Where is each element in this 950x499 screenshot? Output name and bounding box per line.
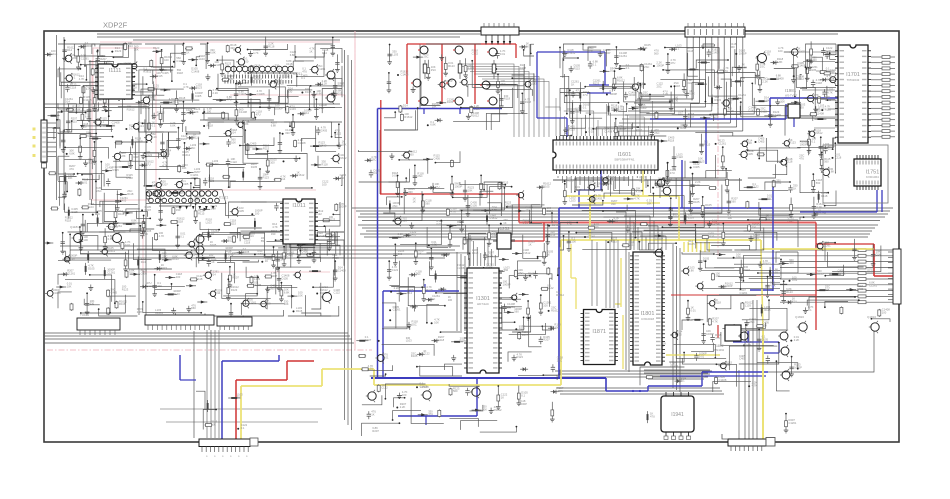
red net small bottom-right stub xyxy=(717,325,719,338)
svg-text:C1408: C1408 xyxy=(401,72,409,76)
svg-text:330: 330 xyxy=(285,131,290,135)
svg-text:R118: R118 xyxy=(127,176,134,180)
wire center vertical bundle x345-352 xyxy=(344,50,346,420)
center C2 component cluster xyxy=(198,199,346,268)
right L component cluster xyxy=(803,239,890,322)
svg-text:C1408: C1408 xyxy=(827,77,835,81)
svg-text:10K: 10K xyxy=(298,294,303,298)
blue net video horizontal xyxy=(378,108,503,110)
svg-text:47U: 47U xyxy=(583,93,588,97)
left of I1941 component cluster xyxy=(647,411,655,423)
svg-text:D105: D105 xyxy=(688,242,695,246)
svg-text:10K: 10K xyxy=(284,302,289,306)
top-left A1 component cluster xyxy=(58,40,205,133)
svg-text:D14: D14 xyxy=(374,171,379,175)
svg-text:C405: C405 xyxy=(141,272,148,276)
svg-text:1K: 1K xyxy=(112,123,115,127)
blue net top-center loop xyxy=(537,51,605,53)
svg-text:R118: R118 xyxy=(821,194,828,198)
svg-text:47U: 47U xyxy=(428,412,433,416)
svg-text:C1408: C1408 xyxy=(257,92,265,96)
svg-text:C122: C122 xyxy=(381,386,388,390)
connector bottom right xyxy=(728,439,766,446)
svg-text:I1871: I1871 xyxy=(592,329,606,335)
I1301 right component cluster xyxy=(502,268,565,380)
svg-text:0.01: 0.01 xyxy=(368,367,374,371)
svg-text:10K: 10K xyxy=(825,288,830,292)
svg-text:0.01: 0.01 xyxy=(125,243,131,247)
svg-text:D105: D105 xyxy=(251,165,258,169)
pink block outline left xyxy=(92,60,148,200)
transistor Q1202 xyxy=(321,291,332,304)
svg-text:10K: 10K xyxy=(647,202,652,206)
svg-text:0.1: 0.1 xyxy=(593,62,597,66)
svg-text:L103: L103 xyxy=(406,339,412,343)
svg-text:C1261: C1261 xyxy=(67,272,75,276)
svg-text:C122: C122 xyxy=(334,291,341,295)
module box around I1751 xyxy=(823,145,888,203)
svg-text:1K: 1K xyxy=(501,395,504,399)
svg-text:C118: C118 xyxy=(438,338,445,342)
blue net top-right xyxy=(650,118,786,120)
svg-text:I1252: I1252 xyxy=(498,226,510,231)
svg-text:330: 330 xyxy=(271,232,276,236)
red net bottom to connector xyxy=(235,380,237,439)
wire right area fan to connector xyxy=(780,249,858,251)
svg-text:L103: L103 xyxy=(643,93,649,97)
section divider horizontal dash-dot line xyxy=(47,349,372,351)
svg-text:330: 330 xyxy=(230,46,235,50)
svg-text:100: 100 xyxy=(571,239,576,243)
svg-text:C1261: C1261 xyxy=(869,283,877,287)
svg-text:D105: D105 xyxy=(282,277,289,281)
svg-text:C118: C118 xyxy=(786,160,793,164)
svg-text:I1941: I1941 xyxy=(671,412,684,418)
bottom H component cluster xyxy=(640,323,802,392)
connector top center xyxy=(481,27,519,35)
svg-text:R1612: R1612 xyxy=(182,153,190,157)
svg-text:D105: D105 xyxy=(693,200,700,204)
svg-text:0.01: 0.01 xyxy=(523,221,529,225)
svg-text:1K: 1K xyxy=(211,232,214,236)
pink block outline around I1111 xyxy=(93,48,156,104)
svg-text:2SC: 2SC xyxy=(654,131,659,135)
svg-text:R118: R118 xyxy=(177,71,184,75)
svg-text:2SC: 2SC xyxy=(749,320,754,324)
svg-text:2SC: 2SC xyxy=(417,174,422,178)
svg-text:330: 330 xyxy=(611,202,616,206)
svg-text:R123: R123 xyxy=(708,234,715,238)
svg-text:4.7K: 4.7K xyxy=(253,51,259,55)
svg-text:10K: 10K xyxy=(468,188,473,192)
svg-text:R123: R123 xyxy=(231,288,238,292)
svg-text:4.7K: 4.7K xyxy=(159,234,165,238)
svg-text:6.8K: 6.8K xyxy=(430,123,436,127)
svg-text:0.1: 0.1 xyxy=(101,120,105,124)
svg-text:6.8K: 6.8K xyxy=(210,51,216,55)
svg-text:100: 100 xyxy=(613,219,618,223)
left edge strip component cluster xyxy=(43,110,61,298)
svg-text:C1408: C1408 xyxy=(712,221,720,225)
svg-text:100: 100 xyxy=(207,109,212,113)
svg-text:0.01: 0.01 xyxy=(500,52,506,56)
svg-text:R207: R207 xyxy=(365,338,372,342)
top-mid strip component cluster xyxy=(358,150,460,186)
svg-text:R115: R115 xyxy=(161,266,168,270)
svg-text:2SC: 2SC xyxy=(371,158,376,162)
I1601 under component cluster xyxy=(563,175,665,205)
svg-text:R123: R123 xyxy=(173,292,180,296)
transistor array K1221 two rows xyxy=(146,190,228,210)
svg-text:C405: C405 xyxy=(287,253,294,257)
svg-text:0.1: 0.1 xyxy=(180,234,184,238)
svg-text:100: 100 xyxy=(554,326,559,330)
IC I1871 xyxy=(581,310,619,365)
svg-text:C118: C118 xyxy=(816,81,823,85)
svg-text:6.8K: 6.8K xyxy=(764,99,770,103)
transistor Q1669 xyxy=(653,247,663,259)
IC I1601 xyxy=(553,136,658,174)
svg-text:D105: D105 xyxy=(411,354,418,358)
svg-text:100: 100 xyxy=(715,274,720,278)
svg-text:R123: R123 xyxy=(448,64,455,68)
svg-text:D14: D14 xyxy=(550,233,555,237)
svg-text:560: 560 xyxy=(409,153,414,157)
svg-text:I1011: I1011 xyxy=(292,203,305,209)
svg-text:C405: C405 xyxy=(195,94,202,98)
svg-text:XDP2F: XDP2F xyxy=(103,21,128,30)
svg-text:R123: R123 xyxy=(122,288,129,292)
svg-text:L103: L103 xyxy=(570,198,576,202)
wire verticals from top connector 2 xyxy=(686,37,688,95)
svg-text:1K: 1K xyxy=(503,221,506,225)
svg-text:R207: R207 xyxy=(522,333,529,337)
svg-text:C1408: C1408 xyxy=(818,211,826,215)
svg-text:D14: D14 xyxy=(687,81,692,85)
svg-text:0.01: 0.01 xyxy=(392,174,398,178)
transistors Q1102 Q1103 right of I1111 block xyxy=(325,69,335,81)
svg-text:C405: C405 xyxy=(758,139,765,143)
blue net thick bottom bus xyxy=(371,377,606,379)
svg-text:100: 100 xyxy=(157,284,162,288)
svg-text:10K: 10K xyxy=(780,99,785,103)
svg-text:2SC: 2SC xyxy=(412,322,417,326)
svg-text:C118: C118 xyxy=(196,277,203,281)
svg-text:L103: L103 xyxy=(88,205,94,209)
svg-text:0.01: 0.01 xyxy=(699,354,705,358)
svg-text:D14: D14 xyxy=(65,100,70,104)
svg-text:R1612: R1612 xyxy=(107,249,115,253)
svg-text:Q1820: Q1820 xyxy=(795,315,804,319)
svg-text:0.01: 0.01 xyxy=(792,278,798,282)
svg-text:2.2K: 2.2K xyxy=(557,389,563,393)
svg-text:1K: 1K xyxy=(793,186,796,190)
svg-text:100: 100 xyxy=(164,58,169,62)
svg-text:1K: 1K xyxy=(413,200,416,204)
red net long horizontal to right xyxy=(380,193,519,195)
svg-text:4.7K: 4.7K xyxy=(712,319,718,323)
yellow net I1871 links xyxy=(570,244,572,278)
red net RGB amp tree xyxy=(407,43,516,45)
left mid A4 component cluster xyxy=(199,114,347,189)
wire fan above I1601 xyxy=(545,98,652,136)
svg-text:100: 100 xyxy=(266,301,271,305)
svg-text:R123: R123 xyxy=(715,98,722,102)
wire bus top-left horizontals xyxy=(97,33,480,35)
svg-text:L103: L103 xyxy=(688,216,694,220)
connector mid second xyxy=(217,317,252,326)
IC I1941 xyxy=(661,396,694,432)
wire fan above I1301 xyxy=(470,235,495,266)
svg-text:4.7K: 4.7K xyxy=(634,196,640,200)
svg-text:R123: R123 xyxy=(817,272,824,276)
svg-text:R123: R123 xyxy=(196,86,203,90)
red net I1252 link xyxy=(511,240,544,242)
yellow pads left connector xyxy=(33,128,36,131)
svg-text:1K: 1K xyxy=(186,51,189,55)
wire fan above I1871 xyxy=(606,240,618,308)
svg-text:6.8K: 6.8K xyxy=(271,123,277,127)
svg-text:C122: C122 xyxy=(677,155,684,159)
transistor pair Q1004 Q1005 xyxy=(194,233,204,245)
svg-text:4.7K: 4.7K xyxy=(86,87,92,91)
wire verticals below mid connectors xyxy=(206,330,208,438)
svg-text:C405: C405 xyxy=(301,250,308,254)
transistor Q1181 xyxy=(72,232,83,245)
bottom G component cluster xyxy=(362,382,564,436)
svg-text:R118: R118 xyxy=(426,288,433,292)
svg-text:2SC: 2SC xyxy=(96,189,101,193)
IC I1701 xyxy=(835,45,871,143)
svg-text:C118: C118 xyxy=(286,62,293,66)
connector left edge AV xyxy=(41,120,47,162)
wire verticals right of I1801 xyxy=(672,244,674,388)
svg-text:330: 330 xyxy=(398,252,403,256)
svg-text:2.2K: 2.2K xyxy=(400,405,406,409)
svg-text:100: 100 xyxy=(728,216,733,220)
center C1 component cluster xyxy=(382,175,560,331)
svg-text:0.1: 0.1 xyxy=(681,379,685,383)
red net right column xyxy=(815,244,817,330)
svg-text:R123: R123 xyxy=(786,290,793,294)
connector bottom center xyxy=(199,439,250,447)
svg-text:0.1: 0.1 xyxy=(129,126,133,130)
section divider vertical dash-dot line right xyxy=(717,31,719,258)
svg-text:L103: L103 xyxy=(206,221,212,225)
svg-text:R123: R123 xyxy=(517,355,524,359)
svg-text:D14: D14 xyxy=(748,109,753,113)
wire channel y208-221 long horizontals xyxy=(352,207,893,209)
svg-text:10K: 10K xyxy=(588,49,593,53)
svg-text:R118: R118 xyxy=(207,123,214,127)
svg-text:R207: R207 xyxy=(372,429,379,433)
svg-text:C1261: C1261 xyxy=(588,234,596,238)
svg-text:47U: 47U xyxy=(69,167,74,171)
svg-text:R123: R123 xyxy=(789,141,796,145)
svg-text:C405: C405 xyxy=(747,152,754,156)
svg-text:6.8K: 6.8K xyxy=(71,56,77,60)
svg-text:2SC: 2SC xyxy=(760,65,765,69)
svg-text:L103: L103 xyxy=(745,303,751,307)
svg-text:R207: R207 xyxy=(145,208,152,212)
transistor Q1703 xyxy=(756,52,767,65)
svg-text:2.2K: 2.2K xyxy=(762,79,768,83)
svg-text:C1408: C1408 xyxy=(53,291,61,295)
svg-text:6.8K: 6.8K xyxy=(120,154,126,158)
svg-text:1000P: 1000P xyxy=(655,237,663,241)
svg-text:1K: 1K xyxy=(280,258,283,262)
svg-text:R118: R118 xyxy=(825,108,832,112)
svg-text:1000P: 1000P xyxy=(85,44,93,48)
svg-text:R118: R118 xyxy=(177,219,184,223)
svg-text:C118: C118 xyxy=(835,155,842,159)
svg-text:MM1092: MM1092 xyxy=(714,348,725,352)
svg-text:R118: R118 xyxy=(519,327,526,331)
svg-text:0.1: 0.1 xyxy=(740,79,744,83)
svg-text:330: 330 xyxy=(677,332,682,336)
blue net main horizontal y208 xyxy=(559,207,773,209)
svg-text:C405: C405 xyxy=(693,165,700,169)
svg-text:100: 100 xyxy=(882,310,887,314)
wire bus left horizontals y104 xyxy=(44,103,340,105)
bottom-left F component cluster xyxy=(56,224,346,322)
svg-text:R1612: R1612 xyxy=(339,156,347,160)
svg-text:100: 100 xyxy=(543,303,548,307)
top-left A2 component cluster xyxy=(200,36,345,123)
svg-text:6.8K: 6.8K xyxy=(290,53,296,57)
svg-text:TU101: TU101 xyxy=(80,313,89,317)
svg-text:R207: R207 xyxy=(232,276,239,280)
svg-text:C1261: C1261 xyxy=(740,291,748,295)
svg-text:6.8K: 6.8K xyxy=(69,151,75,155)
svg-text:C1408: C1408 xyxy=(239,110,247,114)
svg-text:0.1: 0.1 xyxy=(812,140,816,144)
right-top D1 component cluster xyxy=(559,41,836,139)
svg-text:C405: C405 xyxy=(596,196,603,200)
svg-text:R1612: R1612 xyxy=(523,251,531,255)
svg-text:2.2K: 2.2K xyxy=(618,108,624,112)
svg-text:47U: 47U xyxy=(146,163,151,167)
svg-text:R115: R115 xyxy=(119,302,126,306)
svg-text:TPD2043: TPD2043 xyxy=(847,78,860,82)
svg-text:1K: 1K xyxy=(571,83,574,87)
blue net bottom-right xyxy=(733,341,779,343)
red net I1801 right xyxy=(671,294,816,296)
svg-text:2.2K: 2.2K xyxy=(663,92,669,96)
svg-text:C1261: C1261 xyxy=(317,67,325,71)
svg-text:100: 100 xyxy=(176,275,181,279)
svg-text:100: 100 xyxy=(789,261,794,265)
svg-text:330: 330 xyxy=(408,190,413,194)
svg-text:560: 560 xyxy=(514,310,519,314)
svg-text:C1408: C1408 xyxy=(338,268,346,272)
svg-text:1000P: 1000P xyxy=(603,51,611,55)
svg-text:2.2K: 2.2K xyxy=(151,135,157,139)
svg-text:0.01: 0.01 xyxy=(383,355,389,359)
svg-text:D105: D105 xyxy=(210,243,217,247)
svg-text:C122: C122 xyxy=(423,352,430,356)
svg-text:0.1: 0.1 xyxy=(88,161,92,165)
svg-text:2SC: 2SC xyxy=(657,84,662,88)
svg-text:1K: 1K xyxy=(371,413,374,417)
svg-text:2.2K: 2.2K xyxy=(322,82,328,86)
wire I1701 right fan to resistor column xyxy=(871,56,882,58)
IC I1751 xyxy=(854,155,881,190)
IC I1111 xyxy=(95,64,135,99)
svg-text:D14: D14 xyxy=(139,124,144,128)
wire fan above I1801 xyxy=(608,212,666,250)
svg-text:R123: R123 xyxy=(263,176,270,180)
svg-text:WS-TV9-T: WS-TV9-T xyxy=(785,94,798,98)
svg-text:100: 100 xyxy=(402,393,407,397)
svg-text:1K: 1K xyxy=(179,99,182,103)
svg-text:C122: C122 xyxy=(752,185,759,189)
svg-text:2SC: 2SC xyxy=(767,197,772,201)
svg-text:Q1171: Q1171 xyxy=(109,225,118,229)
svg-text:4.7K: 4.7K xyxy=(636,189,642,193)
svg-text:47U: 47U xyxy=(799,156,804,160)
svg-text:330: 330 xyxy=(594,225,599,229)
svg-text:L103: L103 xyxy=(199,57,205,61)
svg-text:0.1: 0.1 xyxy=(583,105,587,109)
svg-text:100: 100 xyxy=(270,160,275,164)
wire verticals above I1871 from band xyxy=(591,240,593,306)
svg-text:560: 560 xyxy=(453,389,458,393)
yellow net bottom path xyxy=(240,386,242,439)
svg-text:2.2K: 2.2K xyxy=(137,310,143,314)
svg-text:R123: R123 xyxy=(398,235,405,239)
svg-text:100: 100 xyxy=(83,238,88,242)
svg-text:1K: 1K xyxy=(418,251,421,255)
svg-text:R1612: R1612 xyxy=(127,107,135,111)
blue net left of I1301 xyxy=(383,290,459,292)
svg-text:D14: D14 xyxy=(280,177,285,181)
transistors bottom center row xyxy=(366,390,376,402)
svg-text:C1261: C1261 xyxy=(107,271,115,275)
svg-text:1K: 1K xyxy=(309,50,312,54)
svg-text:R115: R115 xyxy=(574,66,581,70)
transistors Q1911 group xyxy=(778,330,788,342)
svg-text:C1408: C1408 xyxy=(239,92,247,96)
svg-text:C405: C405 xyxy=(434,157,441,161)
svg-text:D105: D105 xyxy=(238,209,245,213)
svg-text:I1802: I1802 xyxy=(715,344,724,348)
svg-text:1K: 1K xyxy=(265,259,268,263)
pink wire top xyxy=(100,41,340,43)
svg-text:Q1202: Q1202 xyxy=(319,285,328,289)
left of I1301 low component cluster xyxy=(356,331,466,376)
svg-text:R118: R118 xyxy=(268,44,275,48)
svg-text:C405: C405 xyxy=(857,287,864,291)
svg-text:2.2K: 2.2K xyxy=(213,91,219,95)
svg-text:6.8K: 6.8K xyxy=(170,124,176,128)
svg-text:C1261: C1261 xyxy=(823,243,831,247)
svg-text:I1981: I1981 xyxy=(785,88,797,93)
transistor Q1661 xyxy=(655,177,665,189)
svg-text:D105: D105 xyxy=(447,100,454,104)
svg-text:6.8K: 6.8K xyxy=(85,115,91,119)
svg-text:2SC: 2SC xyxy=(423,55,428,59)
svg-text:10K: 10K xyxy=(762,323,767,327)
svg-text:R115: R115 xyxy=(198,211,205,215)
svg-text:10K: 10K xyxy=(231,140,236,144)
svg-text:R207: R207 xyxy=(636,128,643,132)
svg-text:R118: R118 xyxy=(715,301,722,305)
svg-text:R115: R115 xyxy=(230,222,237,226)
svg-text:R123: R123 xyxy=(593,82,600,86)
svg-text:C405: C405 xyxy=(169,100,176,104)
svg-text:R207: R207 xyxy=(100,57,107,61)
